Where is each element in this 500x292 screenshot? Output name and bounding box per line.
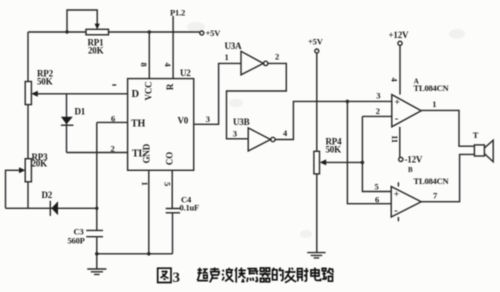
caption 超声波传感器的发射电路 [197, 268, 333, 283]
wire VCC pin8 [148, 32, 150, 79]
svg-text:2: 2 [376, 106, 380, 116]
svg-text:4: 4 [163, 62, 173, 67]
svg-text:TL084CN: TL084CN [414, 83, 450, 93]
wire V0 pin3 to U3A [194, 63, 241, 124]
pin 7 tick [112, 84, 116, 86]
svg-text:6: 6 [111, 114, 115, 124]
pin 1 label U3A [225, 52, 229, 62]
svg-text:TH: TH [131, 119, 145, 130]
node VCC rail junction [148, 30, 151, 33]
node signal branch [346, 100, 350, 104]
wire GND pin1 [148, 170, 150, 254]
pin 6 label [111, 114, 115, 124]
svg-text:4: 4 [390, 77, 400, 82]
label P1.2 [170, 8, 185, 18]
label C3 560P [68, 227, 85, 246]
wire RP4 vertical [316, 53, 318, 252]
resistor RP3 [25, 159, 31, 182]
svg-text:U2: U2 [180, 68, 191, 78]
svg-text:D: D [132, 89, 140, 100]
svg-text:+5V: +5V [206, 28, 222, 38]
svg-text:0.1uF: 0.1uF [180, 203, 200, 213]
svg-text:P1.2: P1.2 [170, 8, 185, 18]
node GND pin junction [147, 252, 151, 256]
wire pin11 -12V [399, 127, 403, 162]
wire pin1 out to T [421, 110, 474, 146]
wire RP2 wiper to D pin [31, 91, 127, 97]
wire C4 bottom [172, 213, 174, 253]
svg-text:+: + [394, 190, 399, 200]
svg-text:11: 11 [390, 135, 400, 143]
ground RP4 [307, 253, 325, 258]
wire C3 to gnd node [96, 238, 98, 254]
label D2 [42, 190, 53, 200]
scan noise [187, 22, 465, 238]
ground left [87, 254, 106, 275]
terminal +5V RP4 [308, 37, 324, 54]
svg-text:50K: 50K [37, 77, 53, 87]
pin 2 label [111, 144, 115, 154]
svg-text:20K: 20K [88, 46, 104, 56]
node C3 gnd junction [95, 252, 99, 256]
svg-text:+: + [395, 98, 400, 108]
label -12V [405, 155, 423, 165]
wire RP3 wiper detour [6, 167, 26, 208]
resistor RP1 [86, 29, 109, 35]
label RP1 20K [88, 38, 105, 56]
node rail-loop junction [65, 30, 68, 33]
op-amp U1B TL084CN [391, 182, 421, 221]
terminal +5V left [200, 28, 221, 38]
label T [473, 130, 479, 140]
label RP2 50K [37, 69, 54, 87]
wire bottom gnd row [97, 253, 173, 255]
resistor RP4 [314, 151, 320, 174]
svg-text:GND: GND [142, 143, 152, 163]
pin 4 label U3B [283, 128, 288, 138]
caption 图3 [158, 268, 171, 282]
svg-text:V0: V0 [178, 116, 189, 126]
pin 3 label opA [376, 91, 380, 101]
wire P1.2 to R pin4 [172, 16, 174, 79]
svg-text:3: 3 [173, 270, 180, 286]
svg-text:U3A: U3A [225, 41, 243, 51]
svg-text:+5V: +5V [308, 37, 324, 47]
svg-text:+12V: +12V [389, 30, 410, 40]
wire left rail vertical [27, 32, 29, 208]
op-amp U1A TL084CN [392, 95, 421, 127]
wire CO pin5 [171, 170, 173, 208]
wire TH vertical to C3 [96, 122, 98, 230]
pin 5 label [162, 182, 172, 186]
pin 3 label V0 [206, 114, 210, 124]
capacitor C4 [166, 209, 180, 213]
svg-text:7: 7 [433, 191, 438, 201]
svg-text:5: 5 [375, 182, 379, 192]
svg-text:U3B: U3B [233, 117, 250, 127]
svg-text:VCC: VCC [144, 82, 154, 101]
label U3A [225, 41, 243, 51]
pin 2 label U3A [275, 52, 279, 62]
svg-text:CO: CO [164, 152, 174, 165]
capacitor C3 [86, 230, 103, 236]
buffer U3B [248, 128, 275, 151]
svg-text:2: 2 [275, 52, 279, 62]
svg-text:R: R [165, 83, 175, 90]
op-amp U2 box [128, 79, 194, 171]
svg-text:1: 1 [432, 99, 436, 109]
wire pin7 out to T [421, 154, 474, 201]
label U3B [233, 117, 250, 127]
svg-text:-: - [395, 113, 399, 125]
label RP3 20K [32, 152, 49, 169]
label C4 0.1uF [180, 195, 200, 213]
wire D1 vertical [66, 94, 68, 153]
svg-text:3: 3 [376, 91, 380, 101]
svg-text:2: 2 [111, 144, 115, 154]
pin 6 label opB [375, 195, 379, 205]
svg-text:20K: 20K [32, 159, 48, 169]
buffer U3A [241, 51, 268, 75]
svg-text:8: 8 [139, 62, 149, 66]
node RP4 wiper tee [361, 161, 365, 165]
svg-text:5: 5 [162, 182, 172, 186]
wire RP1 wiper loop [67, 10, 100, 32]
svg-text:6: 6 [375, 195, 379, 205]
label +12V [389, 30, 410, 40]
wire pin4 +12V [398, 41, 402, 94]
U2 pin labels inside [131, 82, 189, 166]
pin 2 label opA [376, 106, 380, 116]
label D1 [75, 107, 86, 117]
pin 7 label opB [433, 191, 438, 201]
pin 1 label opA [432, 99, 436, 109]
svg-text:TL084CN: TL084CN [414, 176, 450, 186]
svg-text:1: 1 [225, 52, 229, 62]
pin 8 label [139, 62, 149, 66]
pin 3 label U3B [233, 129, 237, 139]
label B TL084CN [408, 166, 450, 186]
pin 1 label [140, 181, 150, 185]
wire TL pin2 row [67, 152, 128, 154]
wire RP4 wiper [320, 159, 363, 165]
label A TL084CN [414, 78, 450, 94]
svg-text:560P: 560P [68, 236, 85, 246]
pin 5 label opB [375, 182, 379, 192]
svg-text:3: 3 [233, 129, 237, 139]
svg-text:4: 4 [283, 128, 288, 138]
wire U3A out to U3B in [227, 63, 287, 138]
node TH/D2/C3 junction [95, 207, 98, 210]
wire ref vertical pin2-pin5 [362, 116, 391, 191]
wire signal to pin6 [347, 101, 391, 203]
svg-text:3: 3 [206, 114, 210, 124]
diode D1 [61, 117, 74, 125]
wire TH pin6 [97, 121, 128, 123]
wire D2 row [6, 207, 97, 209]
svg-text:-: - [394, 205, 398, 217]
wire +5V rail top [28, 31, 200, 33]
svg-text:T: T [473, 130, 479, 140]
resistor RP2 [25, 82, 31, 105]
wire U3B out signal row [275, 101, 392, 139]
label RP4 50K [326, 137, 343, 155]
svg-text:-12V: -12V [405, 155, 423, 165]
label U2 [180, 68, 191, 78]
svg-text:1: 1 [140, 181, 150, 185]
pin 11 label [390, 135, 400, 143]
svg-text:D1: D1 [75, 107, 86, 117]
svg-text:B: B [408, 166, 413, 174]
svg-text:50K: 50K [326, 145, 342, 155]
diode D2 [50, 201, 58, 216]
svg-text:D2: D2 [42, 190, 53, 200]
transducer T [474, 140, 493, 162]
pin 4 label opA [390, 77, 400, 82]
pin 4 label [163, 62, 173, 67]
